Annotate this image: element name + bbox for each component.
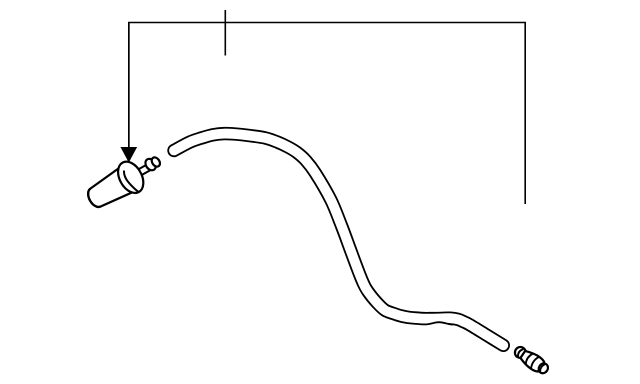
barbed joint fitting (bottom right) — [512, 344, 551, 377]
body rib line 1 — [524, 352, 533, 364]
barb bulge — [143, 157, 158, 172]
arrowhead — [121, 148, 136, 162]
callout bracket line — [129, 23, 525, 205]
body rib line 2 — [529, 356, 539, 369]
collar inner rim arc — [122, 169, 138, 193]
fitting tip crease — [539, 363, 545, 371]
fitting tip — [537, 362, 550, 375]
fitting head crease — [516, 348, 523, 357]
hose (inner white core) — [174, 134, 503, 346]
hose moulded bump on lower edge — [425, 322, 453, 329]
fitting body — [519, 348, 545, 372]
fitting head — [513, 345, 528, 360]
bracket tick mark — [224, 10, 226, 56]
nipple stem — [139, 164, 151, 174]
connector/check valve assembly (left) — [82, 146, 169, 214]
collar flange — [113, 157, 149, 197]
barb tip — [150, 156, 162, 168]
cylinder body — [83, 168, 133, 213]
body end cap ellipse — [85, 189, 100, 210]
arrow shaft — [128, 23, 130, 151]
hose (outer outline) — [174, 134, 503, 346]
